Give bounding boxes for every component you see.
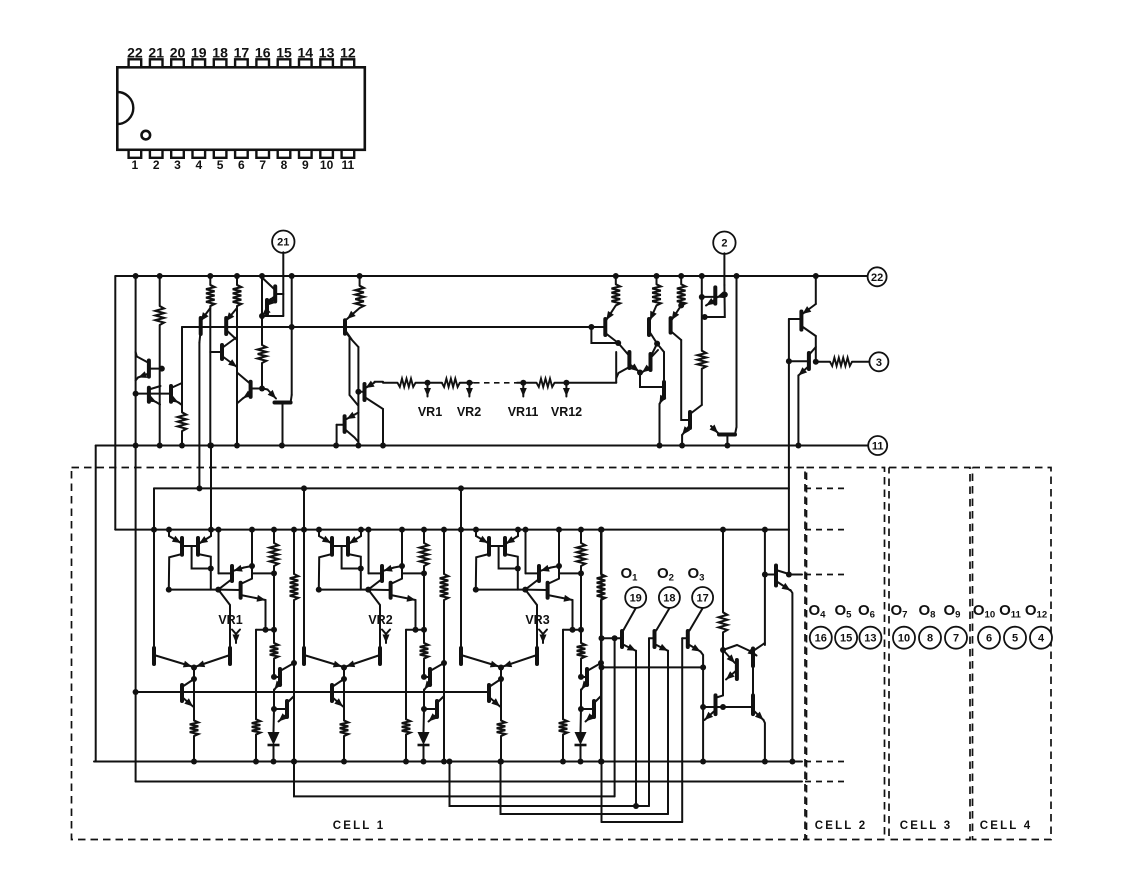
wire pair base tie (VR2 cell) (332, 545, 348, 547)
wire Q23 right lead (735, 427, 737, 435)
wire terminal 2 net (705, 285, 725, 317)
wire column +54 bottom (VR2 cell) (423, 659, 425, 677)
transistor QB (VR1 cell) (196, 538, 200, 555)
transistor Q5 (224, 318, 228, 334)
node (279, 443, 285, 449)
svg-text:21: 21 (148, 44, 164, 60)
svg-text:8: 8 (927, 633, 933, 645)
wire Q8 emitter (262, 311, 267, 316)
node (598, 759, 604, 765)
pin 16 stub (256, 59, 269, 67)
pin 3 stub (171, 150, 184, 158)
wire column 358 (357, 347, 359, 446)
wire QC collector (VR3 cell) (525, 579, 539, 590)
wire Q1 emitter (138, 374, 149, 378)
wire RC to node row (VR1 cell) (255, 735, 257, 762)
pin 13 stub (320, 59, 333, 67)
pin 14 stub (299, 59, 312, 67)
wire chain to mirror (615, 352, 617, 383)
wire column +74 top (VR2 cell) (443, 530, 445, 574)
wire Q3 emitter (171, 399, 179, 403)
svg-text:4: 4 (1038, 633, 1045, 645)
transistor QB (VR3 cell) (503, 538, 507, 555)
resistor RE (VR3 cell) (497, 721, 506, 737)
dashed continuation stub (805, 761, 848, 763)
node (253, 759, 259, 765)
wire Q7 base (275, 293, 283, 295)
wire QA collector (VR2 cell) (319, 554, 332, 590)
node (762, 759, 768, 765)
node (498, 676, 504, 682)
svg-text:19: 19 (630, 593, 642, 605)
pin 9 stub (299, 150, 312, 158)
node (263, 627, 269, 633)
wire mirror tie (VR3 cell) (476, 589, 526, 591)
wire column to cell output (788, 319, 790, 575)
wire to diode (VR3 cell) (580, 709, 583, 732)
wire QF emitter (VR2 cell) (346, 655, 380, 667)
pin 12 stub (342, 59, 355, 67)
transistor Q19 (662, 382, 666, 398)
node (215, 587, 221, 593)
node (441, 759, 447, 765)
wire Q4 emitter (201, 308, 211, 321)
wire chain end (555, 382, 617, 384)
node (473, 587, 479, 593)
diode D (VR2 cell) (418, 732, 430, 745)
node (159, 366, 165, 372)
wire QO1 base column (614, 638, 616, 796)
wire R2 column (209, 306, 211, 446)
node (699, 273, 705, 279)
wire to QN1 (717, 695, 724, 697)
node (515, 527, 521, 533)
node (133, 443, 139, 449)
node (466, 380, 472, 386)
wire column +32 (VR1 cell) (251, 530, 253, 579)
wiper arrow VR12 (565, 386, 567, 397)
node (207, 443, 213, 449)
wire resistor top (615, 276, 617, 284)
svg-text:13: 13 (319, 44, 335, 60)
wire Q25 collector (809, 347, 816, 355)
node (498, 759, 504, 765)
pin 10 stub (320, 150, 333, 158)
node (563, 380, 569, 386)
wire QI emitter (VR2 cell) (429, 714, 438, 722)
node (341, 759, 347, 765)
wire QA collector (VR3 cell) (476, 554, 489, 590)
wire QO3 emitter column (701, 652, 704, 762)
node (522, 587, 528, 593)
wiper arrow VR1 (VR1 cell) (235, 634, 237, 643)
wire Q5 collector (226, 330, 237, 340)
node (613, 273, 619, 279)
svg-text:2: 2 (153, 158, 160, 172)
transistor QE (VR2 cell) (302, 648, 306, 664)
wire column to QC base (VR2 cell) (368, 530, 370, 574)
wire QD collector (VR2 cell) (391, 579, 402, 584)
wire QG emitter (VR3 cell) (489, 697, 500, 707)
wire QO2 base column (648, 638, 650, 806)
node (355, 389, 361, 395)
wire column +54 mid (VR3 cell) (580, 566, 582, 643)
transistor QH (VR3 cell) (585, 669, 589, 685)
resistor R3 (233, 285, 242, 306)
svg-text:CELL 2: CELL 2 (815, 820, 868, 832)
resistor RB (VR3 cell) (577, 643, 586, 659)
transistor Q11 (343, 320, 347, 333)
wire QG base bus (136, 691, 489, 693)
node (786, 358, 792, 364)
resistor R5 (178, 412, 187, 431)
svg-text:5: 5 (217, 158, 224, 172)
transistor Q18 (649, 354, 653, 370)
wire common column (VR1 cell) (193, 668, 195, 721)
wire QC emitter (VR3 cell) (541, 568, 552, 571)
wire R5 to rail (181, 431, 183, 445)
wire from terminal 21 (282, 252, 284, 316)
wire diode to node row (VR2 cell) (423, 745, 425, 762)
wire QB collector (VR1 cell) (198, 554, 211, 590)
wire column R1 bottom (159, 325, 161, 446)
wire Q2 Q3 base line (136, 393, 171, 395)
wire QN bases (703, 706, 753, 708)
node (234, 443, 240, 449)
wire R6 to Q11 (347, 308, 360, 319)
wire to Q17 (618, 343, 629, 356)
wiper arrow VR3 (VR3 cell) (542, 634, 544, 643)
wire Q26 base (765, 574, 776, 576)
wire R8 to terminal 3 (852, 361, 869, 363)
wire Q2 emitter join (157, 402, 161, 404)
wire Q13 collector (345, 429, 359, 442)
terminal 10 (893, 627, 915, 649)
wire QH collector (VR2 cell) (430, 663, 444, 671)
wire column R2 top (209, 276, 211, 285)
wire QB collector (VR2 cell) (348, 554, 361, 590)
transistor QO1 (620, 631, 624, 647)
node (578, 706, 584, 712)
resistor VR chain 1 (398, 379, 416, 387)
wire 21 to bias column (262, 315, 283, 317)
node (786, 572, 792, 578)
svg-text:CELL 1: CELL 1 (333, 820, 386, 832)
dashed continuation stub (805, 781, 848, 783)
pin 6 stub (235, 150, 248, 158)
wire Q6 collector (222, 337, 237, 348)
wiper arrow VR11 (522, 386, 524, 397)
wire QM2 base arc (723, 645, 750, 651)
wire Q7 collector (262, 278, 275, 291)
transistor QI (VR3 cell) (592, 701, 596, 717)
wire Q9 emitter (243, 393, 251, 398)
wire O1 collector (623, 608, 636, 630)
wire QE emitter (VR3 cell) (461, 655, 499, 667)
transistor Q4 (199, 318, 203, 334)
node (316, 527, 322, 533)
node (355, 443, 361, 449)
wire QD emitter (VR1 cell) (241, 595, 266, 600)
node (151, 527, 157, 533)
node (578, 527, 584, 533)
resistor RA (VR2 cell) (420, 543, 429, 566)
transistor Q8 (265, 300, 269, 314)
wire QN1 emitter (705, 710, 716, 720)
transistor QA (VR3 cell) (487, 538, 491, 555)
node (365, 587, 371, 593)
transistor Q2 (147, 388, 151, 402)
wire column +74 top (VR3 cell) (600, 530, 602, 574)
node (515, 566, 521, 572)
wire QI base (VR3 cell) (581, 708, 594, 710)
wire common column (VR2 cell) (343, 668, 345, 721)
wire column 182 (181, 327, 183, 412)
svg-text:14: 14 (298, 44, 314, 60)
wire Q4 collector (199, 330, 200, 343)
transistor Q24 (799, 312, 803, 330)
wire QE emitter (VR2 cell) (304, 655, 342, 667)
node (216, 527, 222, 533)
wire resistor top (680, 276, 682, 284)
wire QC emitter join (VR2 cell) (394, 566, 402, 568)
terminal 3 (869, 352, 888, 371)
node (249, 527, 255, 533)
node (724, 443, 730, 449)
node (441, 660, 447, 666)
resistor RE (VR2 cell) (340, 721, 349, 737)
wire Q11 emitter (345, 330, 358, 347)
wire QD emitter down (VR2 cell) (415, 600, 417, 630)
wire Q8 collector (267, 296, 275, 302)
wire QA collector (VR1 cell) (169, 554, 182, 590)
wiper arrow VR1 (427, 386, 429, 397)
wire O1 base bus (294, 762, 615, 797)
node (458, 527, 464, 533)
wire Q26 collector (776, 570, 789, 574)
wire mirror tie (VR1 cell) (169, 589, 219, 591)
wire Q1 emitter join (136, 378, 138, 381)
wire QG collector (VR2 cell) (332, 679, 344, 687)
wire to R8 (816, 361, 830, 363)
node (259, 273, 265, 279)
dashed continuation stub (805, 529, 848, 531)
node (722, 292, 728, 298)
node (615, 340, 621, 346)
wire Q7 emitter (266, 298, 275, 306)
wire Q20 base column (681, 340, 690, 420)
wire QB emitter (VR2 cell) (349, 536, 361, 544)
node (208, 566, 214, 572)
wiper Y VR1 (VR1 cell) (232, 630, 240, 635)
node (271, 706, 277, 712)
wire QH emitter (VR1 cell) (275, 682, 281, 690)
node (316, 587, 322, 593)
transistor Q3 (169, 386, 173, 402)
wire cell top rail (154, 487, 789, 489)
transistor QM2 (751, 649, 755, 667)
wire mid link (VR1 cell) (256, 629, 274, 631)
wire QM2 collector (755, 643, 765, 650)
svg-text:7: 7 (953, 633, 959, 645)
wire diode to node row (VR1 cell) (273, 745, 275, 762)
svg-text:18: 18 (212, 44, 228, 60)
transistor Q20 (688, 412, 692, 428)
wire column +36 (VR2 cell) (405, 630, 407, 720)
node (196, 485, 202, 491)
svg-text:20: 20 (170, 44, 186, 60)
wire RC to node row (VR2 cell) (405, 735, 407, 762)
transistor QD (VR1 cell) (239, 583, 243, 598)
CELL 4 dashed box (973, 468, 1052, 840)
wire Q10 left lead (268, 390, 277, 399)
node (599, 759, 605, 765)
wire O2 collector (656, 608, 669, 630)
svg-text:16: 16 (815, 633, 827, 645)
node (720, 647, 726, 653)
svg-text:10: 10 (320, 158, 334, 172)
pin 1 stub (129, 150, 142, 158)
transistor Q7 (273, 286, 277, 301)
transistor QC (VR1 cell) (230, 566, 234, 581)
svg-text:2: 2 (721, 238, 727, 250)
svg-text:21: 21 (277, 237, 289, 249)
wire Q19 collector (663, 352, 665, 382)
wire Q17 emitter (629, 364, 639, 372)
svg-text:1: 1 (132, 158, 139, 172)
wire QO2 emitter column (667, 651, 669, 814)
transistor QD (VR3 cell) (546, 583, 550, 598)
wire QG collector (VR3 cell) (489, 679, 501, 687)
wire QI collector (VR3 cell) (594, 696, 601, 703)
wire loop column B2 (135, 276, 137, 782)
svg-text:CELL 3: CELL 3 (900, 820, 953, 832)
wire chain start (375, 381, 384, 383)
transistor QO2 (653, 631, 657, 647)
wire column R1 top (159, 276, 161, 306)
node (289, 324, 295, 330)
wire QA emitter (VR1 cell) (169, 536, 181, 543)
wire O3 collector (690, 608, 703, 630)
transistor QI (VR1 cell) (285, 701, 289, 717)
node (813, 359, 819, 365)
wire Q10 to rail (282, 403, 284, 446)
wire QO1 emitter column (635, 651, 637, 806)
wire QG emitter (VR1 cell) (182, 697, 193, 707)
wire emitter column (VR1 cell) (273, 690, 275, 710)
resistor RD (VR2 cell) (440, 574, 449, 600)
wire QB emitter stub (VR1 cell) (210, 530, 212, 536)
transistor Q13 (343, 416, 347, 432)
wire column 736 (736, 276, 738, 427)
svg-text:22: 22 (127, 44, 143, 60)
svg-text:15: 15 (840, 633, 852, 645)
node (637, 370, 643, 376)
wire to cell top rail (198, 343, 200, 489)
transistor QI (VR2 cell) (435, 701, 439, 717)
terminal 4 (1030, 627, 1052, 649)
transistor QF (VR3 cell) (535, 648, 539, 664)
transistor Q21 (713, 287, 717, 303)
wire QB emitter (VR3 cell) (506, 536, 518, 544)
wire resistor top (656, 276, 658, 284)
resistor RA (VR1 cell) (270, 543, 279, 566)
node (357, 273, 363, 279)
resistor RC (VR2 cell) (402, 719, 411, 734)
transistor Q6 (220, 345, 224, 359)
pin 7 stub (256, 150, 269, 158)
transistor QA (VR2 cell) (330, 538, 334, 555)
node (133, 689, 139, 695)
pin 2 stub (150, 150, 163, 158)
terminal 5 (1004, 627, 1026, 649)
wire QE emitter (VR1 cell) (154, 655, 192, 667)
wire Q1 base (149, 368, 162, 370)
transistor Q16 (669, 318, 673, 333)
node (380, 443, 386, 449)
wire Q13 base (337, 424, 345, 426)
wiper Y VR2 (VR2 cell) (382, 630, 390, 635)
wire QO3 base (682, 637, 688, 639)
wire Q18 collector (651, 350, 659, 358)
wire QA emitter stub (VR1 cell) (168, 530, 170, 536)
wire QC emitter (VR1 cell) (234, 568, 245, 571)
transistor QM1 (735, 660, 739, 679)
svg-text:17: 17 (696, 593, 708, 605)
wire QD emitter (VR3 cell) (548, 595, 573, 600)
transistor QN1 (714, 695, 718, 714)
transistor QD (VR2 cell) (389, 583, 393, 598)
wire second rail (182, 326, 605, 328)
resistor at x=681 (677, 284, 686, 305)
wire O3 base bus (602, 821, 683, 823)
terminal 7 (945, 627, 967, 649)
transistor Q12 (363, 384, 367, 400)
resistor R2 (206, 285, 215, 306)
node (578, 759, 584, 765)
node (612, 635, 618, 641)
wire QO3 base column (681, 638, 683, 822)
wire base tie drop (VR1 cell) (192, 546, 211, 569)
wire QI collector (VR1 cell) (287, 696, 294, 703)
node (700, 759, 706, 765)
resistor RC (VR3 cell) (559, 719, 568, 734)
CELL 3 dashed box (889, 468, 970, 840)
wire column +54 top (VR3 cell) (580, 530, 582, 543)
resistor VR chain 2 (442, 379, 460, 387)
wire to Q19 base (640, 373, 664, 388)
wire QI collector (VR2 cell) (437, 696, 444, 703)
wire Q9 emitter join (238, 398, 244, 403)
wire QC base (VR1 cell) (219, 572, 233, 574)
node (421, 759, 427, 765)
node (795, 443, 801, 449)
node (399, 527, 405, 533)
wire QI emitter (VR1 cell) (279, 714, 288, 722)
node (654, 341, 660, 347)
wire QA emitter stub (VR3 cell) (475, 530, 477, 536)
wire column R6 (359, 276, 361, 286)
pin 17 stub (235, 59, 248, 67)
pin 1 index dot (142, 131, 151, 140)
wire QO2 emitter (655, 644, 669, 651)
wire to R8 (815, 336, 817, 362)
wire column R7 bottom (701, 369, 703, 405)
svg-text:CELL 4: CELL 4 (980, 820, 1033, 832)
wire RC to node row (VR3 cell) (562, 735, 564, 762)
wire emitter column (VR3 cell) (580, 690, 582, 710)
transistor QG (VR2 cell) (330, 685, 334, 701)
